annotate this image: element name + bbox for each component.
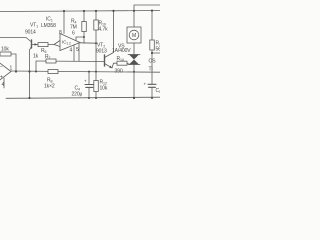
svg-text:220μ: 220μ: [72, 92, 83, 98]
svg-text:9013: 9013: [96, 49, 107, 55]
svg-text:1k×2: 1k×2: [44, 84, 55, 90]
svg-text:+: +: [144, 82, 147, 87]
svg-text:56: 56: [156, 47, 161, 53]
svg-text:6: 6: [72, 31, 75, 37]
svg-text:1k: 1k: [33, 54, 39, 60]
svg-text:Tl: Tl: [149, 67, 153, 73]
svg-text:5: 5: [76, 47, 79, 53]
svg-text:1A/400V: 1A/400V: [112, 48, 131, 54]
svg-text:+: +: [0, 75, 3, 81]
svg-text:OS: OS: [149, 59, 157, 65]
svg-text:LM358: LM358: [41, 23, 56, 29]
svg-text:+: +: [84, 79, 87, 84]
svg-text:4.7k: 4.7k: [99, 27, 109, 33]
svg-text:10k: 10k: [100, 86, 108, 92]
svg-text:10k: 10k: [1, 47, 9, 53]
svg-text:1: 1: [10, 66, 13, 72]
svg-text:M: M: [132, 33, 136, 39]
svg-text:8: 8: [59, 30, 62, 36]
svg-text:4: 4: [70, 48, 73, 54]
svg-text:−: −: [0, 65, 3, 71]
svg-text:IC1.2: IC1.2: [62, 40, 71, 46]
svg-text:390: 390: [115, 69, 123, 75]
svg-text:4: 4: [2, 82, 5, 88]
svg-text:9014: 9014: [25, 30, 36, 36]
